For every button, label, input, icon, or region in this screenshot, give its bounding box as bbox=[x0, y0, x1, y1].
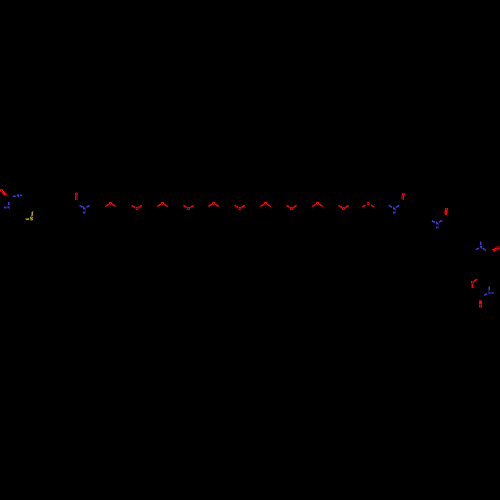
wire Nc-Ce half bbox=[432, 221, 435, 223]
PEG ether O9 bbox=[312, 202, 322, 206]
ureido carbonyl O1 double bond bbox=[2, 191, 7, 196]
PEG ether O2 bbox=[132, 205, 142, 209]
PEG ether O8 bbox=[286, 205, 296, 209]
wire N5-Cg half bbox=[480, 242, 482, 246]
wire S-C4 half bbox=[26, 218, 29, 220]
PEG ether O1 bbox=[105, 202, 115, 206]
wire Nb-Cc half bbox=[389, 205, 392, 207]
wire N6-Cl half bbox=[488, 286, 490, 290]
amide3 C=O double bond bbox=[445, 211, 447, 215]
PEG ether O11 bbox=[362, 202, 374, 207]
wire C2-N3 half bbox=[8, 202, 10, 205]
amide1 C=O double bond bbox=[76, 196, 77, 200]
PEG ether O10 bbox=[338, 205, 348, 209]
amide1 N label bbox=[84, 207, 85, 209]
wire C2-N1 half bbox=[13, 195, 16, 198]
N5 amide C=O double bond bbox=[492, 248, 497, 252]
PEG ether O4 bbox=[183, 205, 193, 209]
wire Nb-Cd half bbox=[396, 205, 399, 207]
wire O7-Cj half bbox=[474, 279, 477, 281]
ether O7 label bbox=[471, 281, 474, 284]
amide1 O label bbox=[75, 193, 78, 196]
biotin N1H label bbox=[17, 195, 22, 197]
PEG ether O7 bbox=[260, 202, 270, 206]
PEG ether O3 bbox=[157, 202, 167, 206]
PEG ether O6 bbox=[235, 205, 245, 209]
amide2 C=O double bond bbox=[402, 196, 404, 200]
wire S-C6 half bbox=[31, 212, 34, 216]
PEG ether O5 bbox=[208, 202, 218, 206]
bottom amide NH label bbox=[489, 292, 494, 294]
bottom amide C=O double bond bbox=[480, 301, 481, 305]
amide3 O label bbox=[445, 208, 448, 211]
wire N5-Ch half bbox=[476, 248, 479, 250]
amide2 H label bbox=[394, 211, 395, 213]
N5 amide O label bbox=[496, 246, 499, 249]
wire N5-Ci half bbox=[483, 248, 486, 250]
wire O7-Ck half bbox=[471, 284, 473, 288]
amide2 O label bbox=[402, 193, 405, 196]
amide3 H label bbox=[437, 226, 438, 228]
tertiary amide N5 label bbox=[480, 246, 481, 248]
wire Na-Cb half bbox=[86, 205, 89, 207]
wire Ca-Na half bbox=[80, 205, 83, 207]
biotin N3H label bbox=[5, 206, 10, 208]
amide2 N label bbox=[394, 207, 395, 209]
thioether S label bbox=[30, 217, 32, 220]
ureido O1 label bbox=[0, 189, 3, 192]
amide3 N label bbox=[437, 222, 438, 224]
bottom amide O label bbox=[479, 305, 482, 308]
amide1 H label bbox=[84, 211, 85, 213]
wire Nc-Cf half bbox=[439, 220, 442, 222]
wire N6-C8 half bbox=[484, 294, 487, 295]
